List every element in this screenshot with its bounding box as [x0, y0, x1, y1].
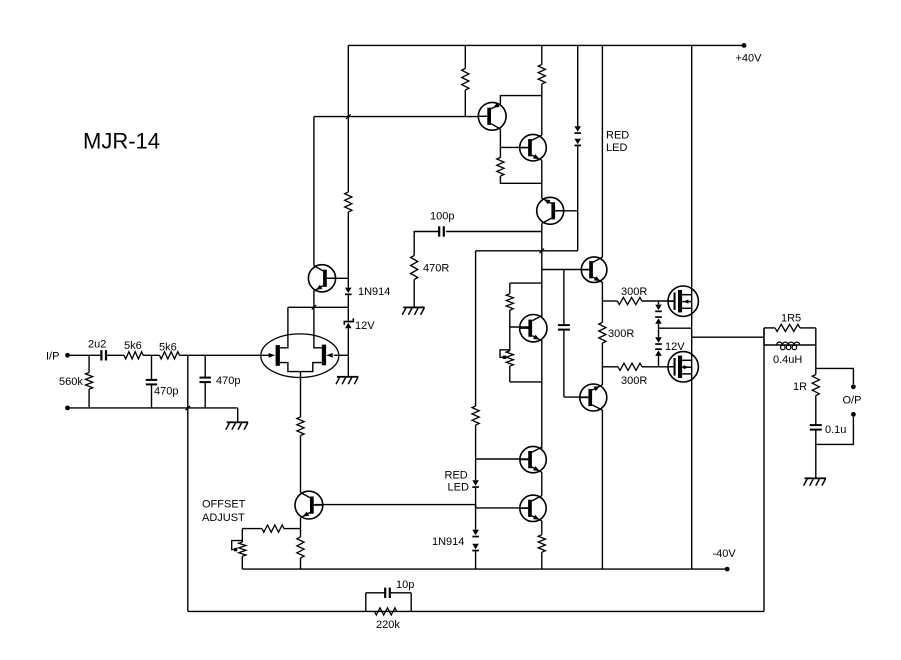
- wire clamp mid tap: [659, 327, 692, 329]
- svg-text:220k: 220k: [376, 619, 400, 631]
- capacitor 470p first: [146, 379, 157, 381]
- svg-text:100p: 100p: [430, 211, 454, 223]
- wire LED column to T3 base: [577, 146, 579, 251]
- node feedback rail crossing jog: [186, 406, 191, 411]
- wire 541 column top: [541, 45, 543, 64]
- capacitor 470p second: [200, 377, 211, 379]
- diode clamp 3: [655, 337, 662, 342]
- wire left JFET drain stub: [280, 307, 288, 348]
- svg-text:5k6: 5k6: [124, 340, 142, 352]
- wire comp cap top lead: [563, 270, 565, 326]
- wire T3 base return horizontal: [476, 250, 578, 252]
- diode RED LED lower: [472, 480, 479, 485]
- wire input bottom rail: [68, 407, 238, 409]
- wire 5k6 to FET gate: [180, 354, 269, 356]
- wire 560k top lead: [88, 355, 90, 372]
- wire T1 collector down: [499, 129, 501, 148]
- node jog at cascode horizontal: [346, 114, 351, 119]
- wire comp cap bottom lead: [563, 330, 565, 398]
- node -40V terminal: [725, 567, 730, 572]
- svg-text:I/P: I/P: [46, 351, 59, 363]
- svg-text:300R: 300R: [621, 286, 647, 298]
- wire multiplier base lead: [510, 326, 529, 328]
- resistor 5k6 first: [124, 352, 143, 359]
- resistor 220k: [374, 608, 396, 615]
- resistor mirror reference: [472, 406, 479, 425]
- svg-text:+40V: +40V: [736, 53, 763, 65]
- svg-text:1R5: 1R5: [781, 313, 801, 325]
- wire inductor line: [764, 344, 816, 346]
- wire 541 column to T2: [541, 84, 543, 135]
- wire +40V top rail: [348, 44, 744, 46]
- wire 10p box right: [410, 593, 412, 612]
- wire T1 emitter up: [500, 96, 541, 104]
- wire input ground stem: [237, 408, 239, 422]
- wire clamp top lead: [658, 301, 660, 305]
- wire right JFET drain stub: [314, 291, 322, 348]
- resistor offset series: [262, 525, 284, 532]
- wire right JFET gate lead: [334, 354, 349, 356]
- potentiometer offset adjust: [239, 542, 246, 556]
- wire cascode collector horizontal: [314, 116, 478, 118]
- wire T2 base-emitter resistor top lead: [499, 147, 501, 157]
- resistor multiplier upper: [506, 294, 513, 310]
- wire O/P return branch: [816, 417, 854, 444]
- wire mosfet column: [691, 45, 693, 569]
- svg-text:MJR-14: MJR-14: [83, 129, 160, 154]
- wire clamp mid lower: [658, 328, 660, 337]
- wire 10p box left: [365, 593, 367, 612]
- svg-text:-40V: -40V: [713, 548, 737, 560]
- wire D2 emitter up: [601, 367, 603, 385]
- diode clamp 4: [655, 348, 662, 350]
- svg-text:LED: LED: [606, 142, 627, 154]
- resistor T2 collector supply: [538, 65, 545, 85]
- transistor offset current source: [295, 491, 323, 519]
- svg-text:OFFSET: OFFSET: [202, 499, 246, 511]
- wire mirror ref column top: [475, 251, 477, 406]
- transistor dual JFET left gate bar: [276, 345, 280, 366]
- wire feedback bottom rail: [188, 610, 764, 612]
- diode clamp 2: [655, 316, 662, 318]
- wire 10p lead left: [366, 592, 385, 594]
- diode clamp 1: [655, 305, 662, 310]
- wire mirror ref column mid1: [475, 425, 477, 480]
- wire D2 collector down: [601, 410, 603, 569]
- wire offset series lead left: [242, 528, 262, 530]
- diode RED LED upper A: [574, 126, 581, 131]
- wire 1R5 lead right: [800, 327, 816, 329]
- wire D2 base lead: [564, 396, 588, 398]
- svg-text:LED: LED: [448, 482, 469, 494]
- wire 1R5 lead left: [764, 327, 775, 329]
- zener diode 12V: [344, 321, 355, 323]
- wire VAS column mid: [541, 339, 543, 448]
- node jog at VAS column crossing: [540, 249, 545, 254]
- wire 470p2 top lead: [204, 355, 206, 377]
- wire 2u2 to 5k6: [106, 354, 124, 356]
- capacitor 10p: [384, 588, 386, 598]
- wire cascode collector up: [313, 117, 315, 266]
- wire Toff emitter resistor to rail: [300, 558, 302, 569]
- wire multiplier left bottom: [509, 366, 511, 382]
- transistor driver lower: [580, 384, 607, 411]
- svg-text:1N914: 1N914: [432, 536, 464, 548]
- svg-text:1N914: 1N914: [358, 286, 390, 298]
- wire driver emitter mid upper: [601, 301, 603, 322]
- wire D1 base from VAS column: [542, 269, 589, 271]
- wire multiplier left top: [509, 283, 511, 294]
- wire Tm2 emitter down: [541, 521, 543, 535]
- resistor 1R5: [775, 324, 800, 331]
- wire 465 column top: [464, 45, 466, 68]
- node O/P hot terminal: [851, 384, 856, 389]
- wire cascode base lead: [327, 277, 349, 279]
- wire offset pot wiper loop: [232, 541, 243, 550]
- wire cap to ground node: [815, 430, 817, 478]
- transistor T1: [478, 102, 506, 130]
- wire preset wiper loop: [500, 350, 510, 358]
- transistor mirror lower: [520, 495, 546, 521]
- wire multiplier bottom horizontal: [510, 381, 542, 383]
- resistor 560k: [86, 373, 93, 390]
- wire T1 collector to T2 base: [500, 146, 528, 148]
- wire left column mid: [347, 212, 349, 288]
- wire LED column top: [577, 45, 579, 126]
- transistor driver upper: [581, 257, 607, 283]
- svg-text:1R: 1R: [793, 381, 807, 393]
- resistor T2 base-emitter: [497, 158, 504, 177]
- mosfet output lower P-channel: [668, 352, 698, 382]
- diode RED LED upper B: [574, 139, 581, 144]
- wire output right column: [815, 328, 817, 375]
- wire output RL box left: [763, 328, 765, 345]
- svg-text:RED: RED: [445, 470, 468, 482]
- resistor JFET tail: [297, 417, 304, 436]
- wire 100p branch left: [414, 232, 439, 256]
- wire lower gate lead a: [602, 366, 618, 368]
- ground input: [227, 421, 249, 423]
- potentiometer offset preset wiper dot: [503, 356, 506, 359]
- node jog at cascode emitter crossing: [312, 305, 317, 310]
- resistor 300R vertical: [599, 322, 606, 343]
- wire zener to ground: [347, 328, 349, 376]
- resistor 5k6 second: [160, 352, 180, 359]
- capacitor 0.1u: [810, 424, 822, 426]
- wire clamp bottom lead: [658, 356, 660, 367]
- wire O/P top branch: [816, 368, 854, 384]
- wire upper gate lead b: [642, 300, 674, 302]
- wire lower gate lead b: [642, 366, 674, 368]
- transistor T3 VAS: [537, 197, 564, 224]
- svg-text:470p: 470p: [154, 386, 178, 398]
- wire D1 emitter down: [601, 282, 603, 301]
- resistor mirror emitter: [538, 535, 545, 552]
- wire between 5k6s: [143, 354, 159, 356]
- wire feedback takeoff column: [763, 328, 765, 612]
- wire resistor to emitter node: [500, 176, 541, 183]
- resistor 1R: [812, 375, 819, 396]
- dual JFET input pair ellipse: [261, 334, 339, 378]
- wire mirror resistor to rail: [541, 552, 543, 569]
- wire multiplier left mid: [509, 310, 511, 351]
- transistor T2: [520, 134, 547, 161]
- resistor T1 emitter supply: [462, 69, 469, 91]
- node O/P return terminal: [851, 412, 856, 417]
- potentiometer offset wiper dot: [234, 548, 237, 551]
- inductor 0.4uH: [777, 342, 800, 345]
- wire T3 base lead: [555, 210, 577, 212]
- capacitor compensation: [558, 324, 570, 326]
- wire Tm1 base lead: [476, 458, 529, 460]
- svg-text:10p: 10p: [396, 579, 414, 591]
- transistor dual JFET right gate arrow: [326, 353, 333, 358]
- ground 470R: [403, 307, 425, 309]
- wire upper gate lead a: [602, 300, 617, 302]
- svg-text:300R: 300R: [621, 375, 647, 387]
- ground output zobel: [805, 477, 827, 479]
- svg-text:470R: 470R: [423, 263, 449, 275]
- transistor Vbe multiplier: [520, 315, 547, 342]
- wire driver column top: [601, 45, 603, 257]
- wire offset pot bottom lead: [241, 556, 243, 569]
- wire tail resistor to Toff: [300, 436, 302, 493]
- svg-text:560k: 560k: [59, 376, 83, 388]
- transistor mirror upper: [520, 446, 546, 472]
- wire mirror ref column bottom: [475, 551, 477, 569]
- wire clamp mid upper: [658, 324, 660, 328]
- wire left drain to 1N914 node: [288, 306, 348, 308]
- wire mirror ref column mid2: [475, 488, 477, 530]
- wire 1R to cap: [815, 396, 817, 426]
- wire feedback column: [187, 355, 189, 611]
- wire 470p2 bottom lead: [204, 382, 206, 408]
- svg-text:0.1u: 0.1u: [825, 424, 846, 436]
- svg-text:RED: RED: [606, 130, 629, 142]
- diode 1N914 lower A: [472, 530, 479, 535]
- svg-text:12V: 12V: [355, 320, 375, 332]
- mosfet output upper N-channel: [668, 286, 698, 316]
- wire T3 collector down: [541, 223, 543, 317]
- wire offset series lead right: [284, 528, 301, 530]
- wire Tm1 emitter to Tm2 collector: [541, 472, 543, 496]
- wire offset pot top lead: [241, 529, 243, 542]
- svg-text:ADJUST: ADJUST: [202, 512, 245, 524]
- resistor 470R: [411, 256, 418, 280]
- wire JFET common source stem: [300, 372, 302, 417]
- wire 470R to ground: [413, 280, 415, 307]
- wire 100p branch right: [446, 231, 542, 233]
- wire -40V rail: [242, 568, 727, 570]
- svg-text:0.4uH: 0.4uH: [773, 354, 802, 366]
- wire output node horizontal: [692, 336, 764, 338]
- node I/P ground terminal: [65, 406, 70, 411]
- ground left column: [337, 376, 359, 378]
- wire 10p lead right: [390, 592, 411, 594]
- svg-text:2u2: 2u2: [88, 339, 106, 351]
- resistor 300R upper gate: [617, 297, 642, 304]
- resistor left column: [345, 192, 352, 212]
- diode 1N914 upper: [345, 288, 352, 293]
- svg-text:O/P: O/P: [843, 395, 862, 407]
- transistor input cascode: [308, 265, 335, 292]
- capacitor 2u2 input: [100, 350, 102, 360]
- diode 1N914 lower B: [472, 544, 479, 549]
- node +40V terminal: [742, 43, 747, 48]
- wire offset long base line: [315, 505, 529, 508]
- wire 470p1 top lead: [151, 355, 153, 380]
- wire 1N914 to junction: [347, 295, 349, 321]
- wire left column upper: [347, 45, 349, 192]
- potentiometer Vbe preset: [506, 351, 513, 366]
- node I/P hot terminal: [65, 353, 70, 358]
- transistor dual JFET right gate bar: [322, 345, 326, 366]
- transistor dual JFET left gate arrow: [269, 353, 276, 358]
- capacitor 100p: [438, 226, 440, 236]
- wire left JFET source stub: [280, 363, 322, 372]
- wire T2 emitter down: [541, 160, 543, 198]
- wire 560k bottom lead: [88, 389, 90, 408]
- svg-text:470p: 470p: [216, 375, 240, 387]
- wire driver emitter mid lower: [601, 343, 603, 367]
- svg-text:5k6: 5k6: [159, 342, 177, 354]
- resistor Toff emitter: [297, 537, 304, 558]
- wire 470p1 bottom lead: [151, 384, 153, 408]
- resistor 300R lower gate: [618, 363, 642, 370]
- wire input signal: [68, 354, 102, 356]
- wire 465 column bottom: [464, 90, 466, 117]
- wire junction to left drain: [287, 306, 289, 308]
- svg-text:300R: 300R: [608, 328, 634, 340]
- wire multiplier top horizontal: [510, 282, 542, 284]
- wire Toff emitter down: [300, 518, 302, 537]
